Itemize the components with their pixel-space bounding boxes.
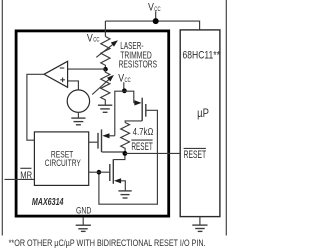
wire Q3 source to ground [121, 181, 125, 191]
microprocessor box 68HC11 [180, 30, 220, 217]
node VCC2 dot [122, 88, 127, 93]
node RESET junction dot [123, 151, 128, 156]
svg-text:RESISTORS: RESISTORS [119, 60, 158, 71]
transistor Q1 weak pullup: source arrow [134, 100, 141, 105]
node divider midpoint dot [103, 67, 108, 72]
svg-text:MR: MR [20, 171, 32, 182]
transistor Q2 channel bar [101, 129, 103, 152]
transistor Q2 gate bar [97, 133, 99, 149]
ground below Q3 [118, 191, 131, 198]
resistor R1 laser-trimmed (zigzag) [101, 37, 110, 70]
svg-text:CIRCUITRY: CIRCUITRY [45, 158, 81, 168]
wire comparator output to reset circuitry [27, 74, 44, 140]
transistor Q3 channel bar [112, 159, 114, 184]
wire Q1 gate routed to Q3 gate node [99, 110, 157, 204]
overline RESET internal [131, 139, 152, 141]
wire Q2 drain to RESET node [102, 152, 125, 153]
trim arrow R2 [92, 79, 109, 95]
wire comparator plus input to reference [68, 81, 79, 90]
frame right border [225, 0, 227, 236]
resistor R2 laser-trimmed (zigzag) [101, 69, 110, 105]
transistor Q1 gate bar [145, 104, 147, 117]
IC box MAX6314 (thick) [16, 31, 169, 216]
overline MR [20, 167, 31, 169]
voltage reference source (circle) [67, 90, 89, 112]
svg-text:**OR OTHER µC/µP WITH BIDIRECT: **OR OTHER µC/µP WITH BIDIRECTIONAL RESE… [9, 238, 206, 249]
wire Q1 source from VCC2 dot [124, 91, 133, 103]
svg-text:CC: CC [125, 77, 131, 84]
wire divider to comparator minus input [68, 68, 106, 70]
wire VCC into R1 [104, 21, 106, 37]
transistor Q3 source arrow [114, 178, 121, 183]
frame left border [1, 0, 3, 236]
op-amp comparator U1 [44, 61, 68, 87]
node VCC junction dot [153, 18, 159, 24]
trim arrow R1 [96, 45, 112, 58]
ground below R2 [98, 105, 112, 112]
wire Q3 drain to RESET node [114, 156, 125, 160]
svg-text:MAX6314: MAX6314 [32, 197, 64, 208]
wire reference to ground [77, 112, 79, 118]
transistor Q1 channel bar [141, 98, 143, 121]
wire GND pin stem [82, 217, 84, 225]
wire VCC label stem [155, 11, 157, 21]
ground below microprocessor [192, 225, 207, 231]
wire RESET to microprocessor [125, 152, 180, 154]
wire Q2 gate from reset circuitry [89, 141, 98, 143]
wire microprocessor ground stem [199, 217, 201, 226]
svg-text:RESET: RESET [131, 141, 153, 153]
transistor Q3 pulldown: gate bar [109, 164, 111, 181]
svg-text:µP: µP [197, 108, 209, 120]
svg-text:4.7kΩ: 4.7kΩ [133, 127, 154, 138]
transistor Q2 strong pullup: source arrow [102, 133, 109, 138]
resistor R3 4.7k (zigzag) [121, 123, 130, 154]
svg-text:CC: CC [154, 6, 160, 13]
wire VCC top rail [105, 21, 199, 30]
wire Q1 drain to resistor 4.7k [125, 121, 142, 123]
wire Q3 gate from reset circuitry [89, 171, 110, 173]
overline RESET uP pin [184, 147, 206, 149]
svg-text:CC: CC [93, 37, 99, 44]
wire Q2 source to VCC2 (routing left-down) [115, 91, 125, 136]
svg-text:68HC11**: 68HC11** [183, 50, 220, 62]
svg-text:RESET: RESET [184, 149, 207, 161]
ground below reference [71, 118, 85, 125]
wire MR input [5, 178, 35, 180]
ground below GND pin [76, 225, 91, 231]
wire VCC2 label stem [123, 82, 125, 88]
node gate junction dot [97, 170, 102, 175]
svg-text:GND: GND [76, 205, 91, 216]
reset circuitry box [34, 132, 88, 186]
